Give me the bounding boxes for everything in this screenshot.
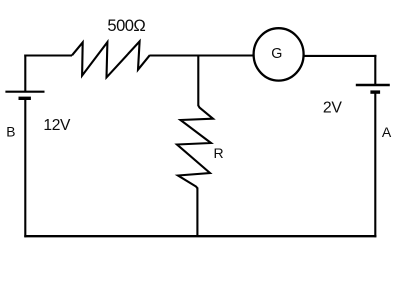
wire: top middle horizontal (resistor to galvanometer) xyxy=(150,54,254,56)
galvanometer G (circle) xyxy=(254,28,304,80)
svg-text:2V: 2V xyxy=(323,99,342,116)
wire: top right horizontal (galvanometer to right corner) xyxy=(304,55,377,57)
battery B short plate (negative) xyxy=(19,97,31,100)
wire: left vertical (top, above battery B) xyxy=(24,55,26,92)
svg-text:G: G xyxy=(271,46,282,62)
wire: vertical from top wire down to resistor R xyxy=(197,56,199,107)
wire: right vertical (above battery A) xyxy=(374,55,376,85)
wire: left vertical (below battery B) xyxy=(24,98,26,237)
resistor 500Ω (sawtooth) xyxy=(72,41,150,77)
svg-text:R: R xyxy=(214,145,224,161)
battery A short plate (negative) xyxy=(370,90,380,93)
battery A long plate (positive) xyxy=(356,84,390,86)
wire: bottom horizontal xyxy=(24,235,376,237)
svg-text:A: A xyxy=(382,124,392,140)
wire: vertical from resistor R down to bottom wire xyxy=(196,188,198,238)
svg-text:500Ω: 500Ω xyxy=(107,16,145,35)
resistor R (vertical zigzag) xyxy=(177,106,213,189)
svg-text:12V: 12V xyxy=(43,117,71,134)
battery B long plate (positive) xyxy=(5,91,44,93)
svg-text:B: B xyxy=(6,125,15,140)
wire: right vertical (below battery A) xyxy=(374,92,376,237)
wire: top-left horizontal xyxy=(24,54,72,56)
